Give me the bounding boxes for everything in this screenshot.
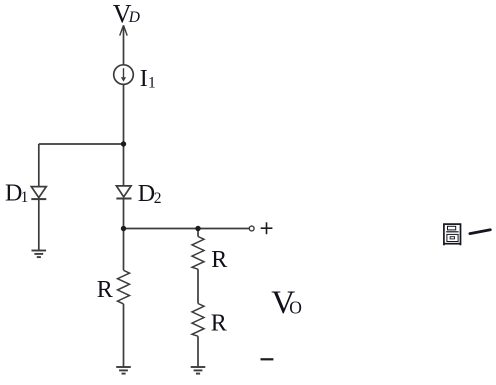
svg-text:1: 1 bbox=[148, 75, 156, 92]
wire: arrowhead to VD bbox=[120, 25, 128, 35]
ground (left, under D1) bbox=[32, 251, 47, 258]
svg-text:1: 1 bbox=[21, 189, 29, 206]
wire: node C down to upper right resistor bbox=[197, 229, 199, 237]
ground (right) bbox=[191, 367, 206, 374]
node C junction dot bbox=[195, 226, 200, 231]
plus sign (output +) bbox=[261, 222, 273, 234]
svg-text:I: I bbox=[140, 66, 148, 92]
output terminal (open circle) bbox=[249, 226, 254, 231]
diode D1 bbox=[31, 187, 46, 200]
wire: current source to node A bbox=[123, 84, 125, 144]
svg-text:R: R bbox=[211, 311, 227, 337]
wire: R to ground (middle) bbox=[123, 304, 125, 367]
label VD bbox=[113, 0, 140, 29]
label VO bbox=[271, 285, 302, 321]
wire: node A to left branch bbox=[39, 143, 124, 145]
node B junction dot bbox=[121, 226, 126, 231]
resistor R (upper right) bbox=[192, 237, 204, 270]
wire: lower right resistor to ground bbox=[197, 336, 199, 367]
current source I1 bbox=[114, 65, 134, 85]
svg-text:R: R bbox=[97, 277, 113, 303]
svg-text:O: O bbox=[289, 298, 302, 318]
label I1 bbox=[140, 66, 156, 92]
resistor R (middle) bbox=[118, 270, 130, 304]
label: figure caption 圖一 bbox=[444, 224, 490, 245]
minus sign (output -) bbox=[261, 358, 274, 360]
diode D2 bbox=[116, 186, 131, 199]
node A junction dot bbox=[121, 141, 126, 146]
wire: between right resistors bbox=[197, 269, 199, 303]
wire: left branch down to D1 bbox=[38, 144, 40, 187]
svg-text:R: R bbox=[211, 247, 227, 273]
label D1 bbox=[5, 180, 28, 206]
svg-text:D: D bbox=[128, 9, 140, 26]
character 圖 bbox=[444, 224, 461, 245]
wire: D2 to node B bbox=[123, 199, 125, 229]
wire: node A down to D2 bbox=[123, 144, 125, 186]
wire: D1 to ground bbox=[38, 199, 40, 250]
wire: node B down to resistor R (middle) bbox=[123, 229, 125, 271]
label D2 bbox=[138, 181, 162, 207]
resistor R (lower right) bbox=[192, 304, 204, 337]
character 一 bbox=[470, 230, 490, 234]
ground (middle) bbox=[116, 367, 131, 374]
wire: VD arrow shaft bbox=[123, 26, 125, 65]
wire: node B to output terminal bbox=[124, 228, 250, 230]
svg-text:D: D bbox=[138, 181, 155, 207]
svg-text:2: 2 bbox=[154, 190, 162, 207]
